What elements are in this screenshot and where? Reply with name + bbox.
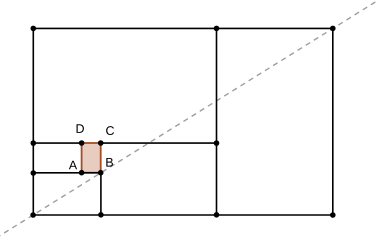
node A: point A — [79, 170, 85, 176]
label C — [106, 126, 114, 135]
wire: outer rectangle bottom edge — [33, 214, 333, 216]
wire: horizontal divider at y=143, left part ending at point D — [33, 142, 81, 144]
node: bottom-right corner point — [330, 212, 336, 218]
label B — [106, 158, 113, 167]
node: bottom edge point at x=216.5 — [214, 212, 220, 218]
node: top-right corner point — [330, 26, 336, 32]
wire: horizontal segment at y=172.8 from left edge through A to B — [33, 172, 100, 174]
node: bottom edge point at x=101 — [98, 212, 104, 218]
wire: horizontal divider at y=143, right part from point C — [101, 142, 217, 144]
label A — [69, 161, 77, 170]
node: top-left corner point — [31, 26, 37, 32]
node D: point D — [79, 140, 85, 146]
node C: point C — [98, 140, 104, 146]
wire: outer rectangle left edge — [32, 28, 34, 215]
label D — [77, 124, 84, 133]
node B: point B — [98, 170, 104, 176]
node: left edge point at y=173 — [31, 170, 37, 176]
node: bottom-left corner point — [30, 212, 36, 218]
wire: middle vertical divider at x=216.5 — [216, 28, 218, 215]
node: top middle point — [214, 26, 220, 32]
node: left edge point at y=143 — [31, 140, 37, 146]
wire: outer rectangle right edge — [332, 28, 334, 215]
wire: vertical segment from point B down to the bottom edge — [100, 173, 102, 215]
wire: outer rectangle top edge — [33, 27, 333, 29]
rectangle ABCD (pink filled similar rectangle with brown border) — [82, 143, 101, 173]
node: right end of the y=143 divider — [214, 140, 220, 146]
